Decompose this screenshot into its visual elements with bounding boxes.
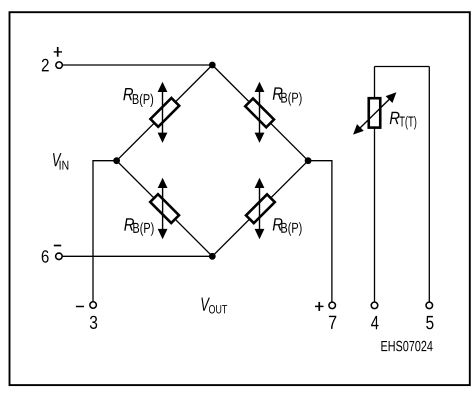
node left junction bbox=[113, 157, 120, 164]
node bottom junction bbox=[209, 253, 216, 260]
pin number 4 bbox=[371, 316, 378, 329]
pin number 5 bbox=[426, 316, 433, 329]
resistor R_B(P) top-left body bbox=[150, 98, 179, 127]
label R_T(T): R bbox=[390, 112, 400, 124]
label R_B(P) top-left: B(P) bbox=[133, 94, 153, 107]
label R_B(P) bottom-left: B(P) bbox=[133, 222, 153, 235]
pin number 3 bbox=[90, 316, 97, 329]
pin number 6 bbox=[42, 250, 49, 262]
plus sign at pin 2 bbox=[54, 47, 62, 57]
resistor R_B(P) bottom-left pressure arrow bbox=[158, 178, 168, 240]
label R_T(T): T(T) bbox=[399, 116, 416, 129]
terminal pin 5 bbox=[426, 302, 433, 309]
terminal pin 7 bbox=[329, 302, 336, 309]
wire pin2 to top node bbox=[63, 64, 213, 66]
label R_B(P) bottom-right: B(P) bbox=[281, 222, 301, 235]
wire left node to pin 3 bbox=[93, 161, 117, 302]
minus sign at pin 6 bbox=[54, 245, 61, 247]
resistor R_B(P) bottom-left body bbox=[150, 194, 179, 223]
resistor R_T(T) temperature arrow bbox=[353, 92, 396, 134]
label EHS07024 bbox=[381, 341, 432, 351]
pin number 2 bbox=[42, 59, 49, 72]
terminal pin 4 bbox=[371, 302, 378, 309]
resistor R_B(P) bottom-right body bbox=[246, 194, 275, 223]
wire top node to left node bbox=[117, 65, 213, 161]
wire pin 6 to bottom node bbox=[63, 255, 213, 257]
wire pin 5 to top bbox=[428, 67, 430, 302]
node top junction bbox=[209, 62, 216, 69]
resistor R_B(P) top-left pressure arrow bbox=[158, 82, 168, 143]
wire top node to right node bbox=[212, 65, 308, 161]
plus sign at pin 7 bbox=[315, 302, 324, 311]
wire right node to pin 7 bbox=[308, 161, 332, 302]
terminal pin 2 bbox=[56, 62, 63, 69]
label VIN main V bbox=[53, 153, 62, 166]
label VOUT main V bbox=[201, 298, 210, 311]
label R_B(P) top-right: B(P) bbox=[281, 92, 301, 105]
wire top of RT branch bbox=[375, 66, 430, 68]
resistor R_B(P) top-right body bbox=[245, 99, 274, 128]
resistor R_T(T) body bbox=[369, 98, 381, 127]
wire pin 4 to top bbox=[374, 67, 376, 302]
wire right node to bottom node bbox=[212, 161, 308, 257]
label R_B(P) bottom-left: R bbox=[124, 218, 134, 230]
minus sign at pin 3 bbox=[76, 306, 84, 308]
label VIN subscript IN bbox=[60, 161, 69, 170]
terminal pin 3 bbox=[90, 302, 97, 309]
resistor R_B(P) top-right pressure arrow bbox=[255, 82, 265, 143]
wire left node to bottom node bbox=[117, 161, 213, 257]
terminal pin 6 bbox=[56, 253, 63, 260]
resistor R_B(P) bottom-right pressure arrow bbox=[255, 178, 265, 240]
node right junction bbox=[305, 157, 312, 164]
label R_B(P) bottom-right: R bbox=[273, 218, 283, 230]
pin number 7 bbox=[329, 316, 336, 329]
label VOUT subscript OUT bbox=[209, 305, 227, 313]
label R_B(P) top-left: R bbox=[123, 88, 133, 100]
label R_B(P) top-right: R bbox=[273, 87, 283, 99]
